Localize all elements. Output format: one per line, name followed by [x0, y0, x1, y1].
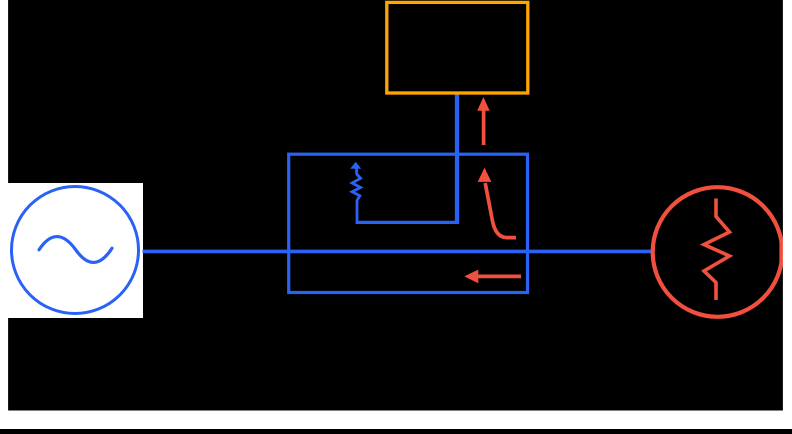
inductor L1 arrowhead — [350, 162, 361, 169]
arrow: power flow up to orange box — [482, 110, 486, 145]
wire: inner horizontal segment — [356, 221, 459, 224]
wire: vertical tap to orange load box — [455, 94, 459, 224]
load R1 (red circle body) — [653, 187, 783, 317]
inductor L1 (coil with arrow) — [352, 168, 361, 224]
arrow: curved power flow inside blue box — [485, 183, 516, 238]
block: transmission line section (blue box) — [289, 154, 528, 292]
wire: main bus from V1 to load — [143, 250, 655, 254]
ac source V1 circle — [12, 187, 139, 314]
wire stub right of load (clipped at canvas edge) — [779, 239, 783, 262]
ac source V1 sine symbol — [39, 237, 112, 263]
canvas margin bottom (matte) — [0, 411, 792, 430]
arrow: reverse power flow (lower, pointing left) — [478, 275, 522, 279]
canvas margin right (matte) — [783, 0, 792, 429]
canvas margin left (matte) — [0, 0, 8, 429]
load R1 resistor zigzag — [704, 199, 730, 301]
load box (orange rectangle) — [387, 2, 528, 93]
ac source V1 (white body) — [7, 183, 143, 318]
